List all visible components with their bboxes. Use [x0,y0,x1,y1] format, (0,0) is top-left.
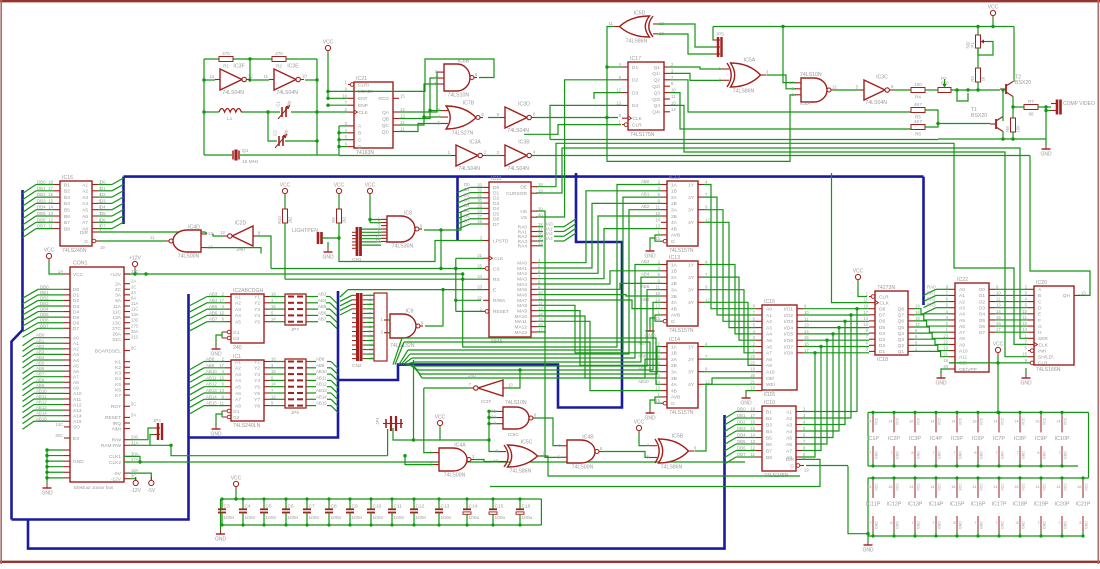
junction [849,313,852,316]
wire [736,411,748,413]
wire IC22 O3 to IC20 [995,307,1028,309]
svg-text:7: 7 [890,451,892,455]
svg-text:17: 17 [804,348,809,353]
ground RAM caps [862,541,874,554]
wire JP6 out [306,373,316,375]
svg-text:74273N: 74273N [877,285,895,291]
svg-text:7: 7 [1037,521,1039,525]
junction [439,267,442,270]
svg-text:14C: 14C [55,422,63,427]
svg-text:VS: VS [521,215,527,221]
svg-text:A1: A1 [235,359,241,365]
svg-text:74LS157N: 74LS157N [669,328,694,334]
svg-text:15: 15 [400,93,405,98]
svg-text:QA: QA [382,110,390,116]
bus tap IC11 D4 [458,208,471,213]
svg-text:G1: G1 [233,409,240,415]
wire IC14 4Y to OE [704,378,756,384]
svg-text:RDY: RDY [111,404,122,410]
wire Q3 to R6 row [670,93,911,129]
svg-text:3A: 3A [671,208,678,214]
wire AB route [410,210,661,354]
wire JP5 to top rail [713,27,714,41]
wire JP6 out [306,386,316,388]
svg-text:100n: 100n [352,515,363,521]
wire JP6 out [306,405,316,407]
svg-text:4Y: 4Y [688,382,695,388]
svg-text:IC3B: IC3B [518,140,530,146]
svg-text:GND: GND [1022,521,1026,529]
svg-text:A9: A9 [766,363,772,369]
svg-text:A13: A13 [73,408,82,414]
svg-text:2C: 2C [131,284,136,289]
wire VCC to IC8 inputs [369,196,371,223]
ground 6116 [740,394,752,407]
svg-text:IC6C: IC6C [508,432,519,438]
svg-text:GND: GND [1085,521,1089,529]
svg-text:DIR: DIR [786,457,795,463]
wire mux Y to RAM addr [704,265,756,334]
wire CLK1 jog [124,456,140,462]
wire IC2D in from right [258,236,271,269]
svg-text:CN1: CN1 [352,257,362,263]
wire VS to IC17 D2 [536,80,622,217]
svg-text:68: 68 [1028,112,1034,117]
svg-text:4Y: 4Y [688,220,695,226]
wire CON1 D1 [38,294,64,296]
wire IC16 B8 [36,228,54,230]
svg-text:O5: O5 [979,318,986,324]
svg-text:O6: O6 [979,324,986,330]
capacitor C7 100n [303,497,320,526]
svg-text:D5: D5 [493,211,499,217]
svg-text:VCC: VCC [959,417,963,425]
svg-text:13: 13 [655,224,660,229]
svg-text:2Y: 2Y [688,275,695,281]
svg-text:AB1: AB1 [641,192,650,197]
svg-text:AB7: AB7 [209,317,218,322]
svg-text:13: 13 [996,303,1001,308]
svg-text:IC17P: IC17P [992,502,1007,508]
junction [454,299,457,302]
bus tap D6 [112,216,124,223]
svg-text:Elektuur Junior bus: Elektuur Junior bus [74,485,114,490]
wire [327,405,331,407]
bus tap CON1 AB15 [23,421,35,429]
svg-text:A6: A6 [786,442,792,448]
svg-text:CLK: CLK [359,110,369,116]
svg-text:VCC: VCC [323,40,334,46]
junction [326,90,329,93]
wire IC5B out up to WE [695,384,756,451]
svg-text:16: 16 [909,419,913,423]
NOR IC7B 74LS27N [438,101,485,137]
wire R3 to P2 row [977,82,979,90]
wire IC2 A3 [207,308,225,310]
wire CON1 D2 [38,299,64,301]
svg-text:D4: D4 [73,309,79,315]
svg-text:B8: B8 [64,226,70,232]
svg-text:Q1: Q1 [898,349,905,355]
svg-text:D6: D6 [879,319,885,325]
svg-text:14: 14 [1022,327,1027,332]
svg-text:AB5: AB5 [641,284,650,289]
svg-text:A1: A1 [235,294,241,300]
wire IC12 G to GND [650,238,655,247]
svg-text:13: 13 [655,386,660,391]
wire CN2 pin [366,330,374,332]
svg-text:B3: B3 [64,195,70,201]
svg-text:QH: QH [1063,293,1071,299]
wire IC6C in2 [489,417,497,419]
wire JP6 out [306,398,316,400]
svg-text:2A: 2A [115,282,122,288]
svg-text:2Y: 2Y [688,357,695,363]
wire IC16 B3 [36,196,54,198]
wire to ENP [328,104,348,106]
wire I/O7 to IC18 [803,346,869,348]
svg-text:14: 14 [930,485,934,489]
inverter IC3E [264,64,308,97]
svg-text:IRQ: IRQ [112,421,121,427]
svg-text:A4: A4 [82,201,88,207]
svg-text:11: 11 [996,297,1001,302]
svg-text:A7: A7 [235,397,241,403]
connector COMP VIDEO [1051,100,1095,115]
svg-text:AB3: AB3 [36,349,45,354]
wire T2 emitter down [1012,97,1014,108]
svg-text:7: 7 [869,521,871,525]
svg-text:16: 16 [271,369,276,374]
wire MA route [537,300,661,309]
svg-text:15: 15 [750,426,755,431]
junction [991,25,994,28]
svg-text:40p: 40p [287,100,292,108]
svg-text:MA5: MA5 [517,287,527,293]
bus tap D3 [112,197,124,204]
wire JP7 out [306,308,318,310]
CON1 left pins [55,269,84,478]
svg-text:30C: 30C [55,433,63,438]
svg-text:8: 8 [911,451,913,455]
svg-text:A8: A8 [235,403,241,409]
svg-text:IC3F: IC3F [233,64,244,70]
wire IC13 G to GND [650,318,655,327]
svg-text:3B: 3B [671,294,677,300]
svg-text:27A: 27A [131,457,139,462]
svg-text:GND: GND [980,451,984,459]
svg-text:2B: 2B [671,201,677,207]
svg-text:AB8: AB8 [316,357,325,362]
svg-text:VCC: VCC [73,272,84,278]
XOR IC5D 74LS86N [609,11,665,45]
wire IC13 AVB-G tie [655,315,661,321]
bus tap AB11 out [331,380,338,387]
wire [736,456,748,458]
wire CON1 A4 [34,359,64,361]
svg-text:AB6: AB6 [36,366,45,371]
wire IC3F out to IC3E [252,79,269,81]
svg-text:A7: A7 [786,448,792,454]
svg-text:IC16P: IC16P [971,502,986,508]
svg-text:GND: GND [210,432,222,438]
wire IC2D out to IC4D [213,234,224,237]
svg-text:F: F [1038,318,1041,324]
bus tap RA2 [564,228,576,236]
svg-text:18A: 18A [131,468,139,473]
jumper JP5 [714,32,724,58]
wire IC1 A7 [204,398,225,400]
wire IC14 1Y to A6 [704,346,756,348]
resistor R6 4K7 [911,119,925,137]
bus transceiver IC10 74LS245N [750,400,806,479]
bus tap CON1 AB12 [23,405,35,413]
svg-text:A10: A10 [766,370,775,376]
svg-text:4B: 4B [671,226,677,232]
svg-text:CLR\: CLR\ [358,82,370,88]
svg-text:IC21P: IC21P [1076,502,1091,508]
wire VCC to rail [235,489,237,499]
junction [487,438,490,441]
svg-text:C1: C1 [276,101,281,107]
wire mux Y to RAM addr [704,185,756,309]
svg-text:D6: D6 [100,217,106,222]
XOR IC5C 74LS86N [493,440,546,475]
wire IC11 D4 [470,207,483,209]
bus tap D1 [112,184,124,191]
wire RA0 [537,226,543,228]
wire [736,437,748,439]
wire IC22 O7 to IC20 [995,331,1028,333]
wire IC14 3Y to A10 [704,371,756,373]
svg-text:R7: R7 [1028,99,1034,104]
svg-text:AB10: AB10 [316,369,327,374]
wire IC1 A8 [204,405,225,407]
svg-text:10: 10 [491,415,496,420]
svg-text:L1: L1 [227,116,233,122]
wire GND pin [47,460,64,462]
wire IC2F out [424,387,470,389]
bus tap RA0 right [924,289,937,295]
svg-text:GND: GND [980,521,984,529]
wire to P1 [977,27,979,36]
svg-text:4A: 4A [671,220,678,226]
wire JP6 out [306,392,316,394]
wire IC8 in2 [370,222,381,224]
svg-text:MA0: MA0 [517,261,527,267]
svg-text:DE: DE [520,185,527,191]
svg-text:C4: C4 [245,504,251,510]
wire I/O5 to IC18 [803,333,869,335]
svg-text:74LS04N: 74LS04N [276,90,298,96]
register IC18 74273N [863,285,920,363]
svg-text:12: 12 [705,297,710,302]
svg-text:7: 7 [995,521,997,525]
svg-text:R/WA: R/WA [493,298,506,304]
svg-text:A3: A3 [766,325,772,331]
wire JP7 out [306,302,318,304]
svg-text:13A: 13A [112,315,121,321]
wire CON1 A15 [34,420,64,422]
bus tap AB9 [190,368,204,376]
wire MA route [537,283,661,289]
wire CN1 to IC8 [361,241,381,243]
svg-text:MA10: MA10 [514,314,527,320]
svg-text:VCC: VCC [875,483,879,491]
wire IC3A to IC3B [486,155,500,157]
capacitor C5 100n [260,497,277,526]
svg-text:IC7B: IC7B [463,101,475,107]
svg-text:13: 13 [863,322,868,327]
svg-text:14: 14 [750,433,755,438]
RAM chip power IC13P [908,476,923,537]
svg-text:VCC: VCC [634,420,645,426]
svg-text:A10: A10 [959,348,968,354]
svg-text:GND: GND [938,521,942,529]
svg-text:LIGHTPEN: LIGHTPEN [292,228,318,234]
wire I/O7 down to IC10 [802,347,821,451]
wire I/O3 to IC18 [803,320,869,322]
wire [326,296,330,298]
wire cap row right [540,499,542,525]
svg-text:IC12: IC12 [669,175,680,181]
wire CN2 pin [366,294,374,296]
bus tap CON1 DB2 [23,300,39,309]
wire IC18 Q to IC22 A6 [914,321,949,326]
svg-text:8: 8 [974,451,976,455]
svg-text:7: 7 [1058,451,1060,455]
svg-text:GND: GND [215,537,227,543]
resistor R4 100 [911,82,925,100]
IC2 G pins [222,330,240,342]
svg-text:31A: 31A [131,440,139,445]
junction [813,351,816,354]
RAM chip power IC14P [929,476,944,537]
svg-text:12: 12 [1022,321,1027,326]
svg-text:A6: A6 [235,391,241,397]
bus tap AB [411,365,420,374]
bus wire RA loop [338,173,622,408]
svg-text:GND: GND [1020,381,1032,387]
svg-text:Q8: Q8 [898,307,905,313]
svg-text:D3: D3 [100,198,106,203]
svg-text:100u: 100u [522,515,533,521]
svg-text:IC16: IC16 [62,175,73,181]
wire MA route [537,305,661,353]
svg-text:74LS10N: 74LS10N [447,93,469,99]
wire gnd stub IC20 [1025,368,1027,374]
svg-text:100n: 100n [266,515,277,521]
svg-text:RA3: RA3 [927,303,936,308]
svg-text:D: D [358,144,362,150]
svg-text:11: 11 [751,452,756,457]
svg-text:16: 16 [951,485,955,489]
svg-text:74LS86N: 74LS86N [626,39,648,45]
svg-text:23: 23 [477,285,482,290]
svg-text:VCC: VCC [1064,483,1068,491]
svg-text:A0: A0 [73,336,79,342]
svg-text:15: 15 [655,398,660,403]
svg-text:RS: RS [493,277,500,283]
wire top rail to IC6A [783,27,796,83]
bus tap RA3 right [924,308,937,314]
wire D3 stub [594,93,622,99]
svg-text:VCC: VCC [44,248,55,254]
bus tap CON1 AB13 [23,410,35,418]
svg-text:I/O1: I/O1 [784,307,793,313]
svg-text:7: 7 [974,521,976,525]
bus tap D0 [112,178,124,185]
wire IC14 2Y to A8 [704,358,756,360]
svg-text:A2: A2 [235,366,241,372]
junction [936,122,939,125]
svg-text:18: 18 [750,386,755,391]
svg-text:A12: A12 [73,402,82,408]
svg-text:A7: A7 [766,351,772,357]
wire [326,314,330,316]
svg-text:100n: 100n [224,515,235,521]
svg-text:A3: A3 [786,422,792,428]
wire JP4 to node [393,428,440,440]
svg-text:74LS04N: 74LS04N [507,166,529,172]
wire IC6B feedback to LOAD [348,59,494,91]
wire R1-R2 tap [249,59,251,80]
svg-text:VCC: VCC [917,417,921,425]
svg-text:VCC: VCC [988,5,999,11]
wire R10 down [284,223,286,279]
svg-text:15: 15 [48,198,53,203]
svg-text:100u: 100u [495,515,506,521]
IC11 control pins [477,182,543,315]
svg-text:1B: 1B [671,269,677,275]
trimmer capacitor C2 10p [273,129,289,148]
svg-text:C11: C11 [394,504,403,510]
svg-text:CLK: CLK [1039,342,1049,348]
svg-text:CLR: CLR [879,294,889,300]
svg-text:14: 14 [996,309,1001,314]
svg-text:GND: GND [1022,451,1026,459]
svg-text:14: 14 [867,419,871,423]
wire IC11 D7 [470,223,483,225]
wire R8 to gnd rail [1012,132,1014,139]
svg-text:C13: C13 [441,504,450,510]
svg-text:Y1: Y1 [254,359,260,365]
svg-text:GND: GND [896,451,900,459]
svg-text:2A: 2A [671,195,678,201]
wire RA2 b [554,235,564,237]
junction [202,78,205,81]
svg-text:13: 13 [655,304,660,309]
svg-text:4A: 4A [671,382,678,388]
wire RS row [285,278,483,280]
wire CON1 D6 [38,322,64,324]
bus tap CN2 [340,295,352,301]
svg-text:500: 500 [966,41,971,49]
wire rail to T2 collector [1013,27,1015,83]
bus tap CON1 AB7 [23,377,35,385]
svg-text:IC9: IC9 [405,309,413,315]
CRTC IC11 6845 [477,176,531,345]
svg-text:13: 13 [659,31,664,36]
junction [337,131,340,134]
bus tap AB6 out [330,315,337,322]
wire IC18 Q to IC22 A8 [914,333,949,338]
wire IC16 A7 [98,221,112,223]
svg-text:30A: 30A [131,451,139,456]
wire CON1 D5 [38,316,64,318]
svg-text:A0: A0 [766,307,772,313]
wire IC1 Y4 to JP6 [270,379,285,381]
